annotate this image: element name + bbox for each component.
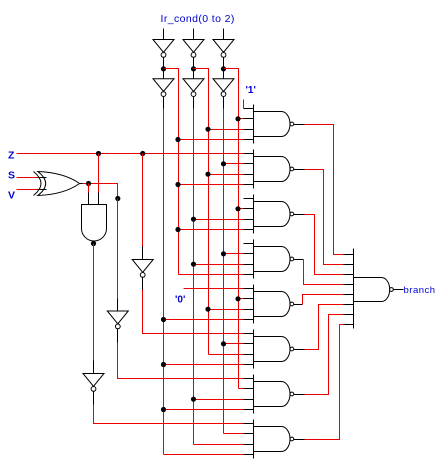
gate G3 input stub 1: [244, 198, 254, 200]
wire U4 output stub: [142, 278, 144, 290]
wire S: [17, 177, 38, 179]
wire gate G8 input 4: [164, 454, 244, 456]
gate G8 input stub 1: [244, 423, 254, 425]
wire gate G1 output to OR: [305, 125, 344, 255]
or-gate input bar: [353, 249, 355, 329]
junction Z to AND: [96, 151, 101, 156]
wire gate G2 input 2: [224, 163, 244, 165]
gate G6 input stub 3: [244, 354, 254, 356]
wire U2a output to U2b input: [193, 58, 195, 79]
gate G7 input stub 1: [244, 378, 254, 380]
inverter U5: [107, 311, 128, 324]
wire U2b output stub: [193, 97, 195, 109]
wire gate G4 input 4: [179, 274, 244, 276]
wire gate G6 input 4: [164, 364, 244, 366]
wire bypass elbow col1: [164, 69, 179, 71]
wire bypass elbow col3: [224, 69, 239, 71]
wire constant 1: [243, 100, 245, 109]
wire net nIrCond0 vertical: [163, 109, 165, 455]
gate G1 input stub 3: [244, 129, 254, 131]
wire constant 0: [184, 288, 244, 290]
wire net IrCond0 vertical: [178, 69, 180, 275]
gate G1 input stub 1: [244, 108, 254, 110]
svg-text:S: S: [8, 170, 15, 182]
gate G2 input stub 2: [244, 163, 254, 165]
wire and output stub: [93, 242, 95, 244]
inverter U1a: [153, 40, 174, 53]
wire net IrCond1 vertical: [208, 69, 210, 355]
wire and input stub right: [98, 193, 100, 205]
junction G4 input 3: [191, 262, 196, 267]
junction G1 input 2: [235, 116, 240, 121]
wire gate G5 output to OR: [303, 295, 344, 305]
gate G4 input stub 3: [244, 264, 254, 266]
wire U6 output stub: [93, 392, 95, 405]
wire U6 output to gate G8: [94, 405, 244, 424]
wire branch output: [394, 289, 404, 291]
and gate U8: [82, 205, 107, 241]
wire gate G8 output to OR: [305, 325, 344, 440]
wire net Z: [17, 153, 244, 155]
junction G2 input 4: [175, 182, 180, 187]
gate G2 input stub 1: [244, 153, 254, 155]
wire gate G3 output to OR: [305, 215, 344, 275]
wire U3a output to U3b input: [223, 58, 225, 79]
wire U5 output stub: [117, 329, 119, 343]
or-gate input stub 1: [344, 254, 354, 256]
svg-text:V: V: [8, 190, 15, 202]
junction G6 input 4: [161, 362, 166, 367]
wire U6 input stub: [93, 361, 95, 374]
wire net nIrCond1 vertical: [193, 109, 195, 445]
wire gate G1 input 3: [209, 129, 244, 131]
nand gate G3: [253, 195, 255, 234]
gate G5 input stub 4: [244, 319, 254, 321]
wire gate G6 output to OR: [305, 305, 344, 350]
junction G3 input 2: [235, 206, 240, 211]
wire S stub: [38, 177, 47, 179]
gate G8 input stub 2: [244, 433, 254, 435]
inverter U2a: [183, 40, 204, 53]
wire Z to inverter U4 input: [142, 154, 144, 247]
wire gate G3 input 2: [239, 208, 244, 210]
wire xor to and input: [88, 184, 90, 193]
wire gate G5 output stub: [294, 304, 303, 306]
junction Z to inverter U4: [140, 151, 145, 156]
wire gate G3 output stub: [294, 214, 305, 216]
wire gate G3 input 4: [179, 229, 244, 231]
junction node col3: [221, 66, 226, 71]
wire xor output stub: [80, 183, 83, 185]
gate G6 input stub 1: [244, 333, 254, 335]
wire gate G2 output stub: [294, 169, 305, 171]
wire gate G8 input 3: [194, 444, 244, 446]
gate G1 input stub 2: [244, 118, 254, 120]
wire bypass elbow col2: [194, 69, 209, 71]
wire xor output: [83, 184, 118, 199]
inverter U4: [132, 260, 153, 273]
inverter U3b: [213, 79, 234, 92]
wire V: [17, 189, 38, 191]
wire U4 input stub: [142, 247, 144, 260]
wire gate G4 output to OR: [304, 260, 344, 285]
junction G3 input 3: [191, 217, 196, 222]
nand gate G8: [253, 420, 255, 459]
nand gate G5: [253, 285, 255, 324]
wire U3b output stub: [223, 97, 225, 109]
wire xor to inverter U5 input: [117, 199, 119, 299]
wire gate G2 output to OR: [305, 170, 344, 265]
wire gate G6 input 2: [224, 343, 244, 345]
wire gate G5 input 2: [239, 298, 244, 300]
wire gate G8 output stub: [294, 439, 305, 441]
wire U4 output to gate G6: [143, 290, 244, 334]
gate G3 input stub 4: [244, 229, 254, 231]
junction G5 input 3: [205, 307, 210, 312]
or-gate input stub 7: [344, 314, 354, 316]
or-gate input stub 8: [344, 324, 354, 326]
wire Z to and input: [98, 154, 100, 193]
wire U5 output to gate G7: [118, 343, 244, 379]
wire gate G2 input 3: [209, 174, 244, 176]
junction xor tap node: [115, 196, 120, 201]
wire gate G5 input 4: [164, 319, 244, 321]
gate G1 input stub 4: [244, 139, 254, 141]
wire gate G3 input 3: [194, 219, 244, 221]
or-gate input stub 2: [344, 264, 354, 266]
or-gate input stub 3: [344, 274, 354, 276]
nand gate G2: [253, 150, 255, 189]
gate G7 input stub 3: [244, 399, 254, 401]
wire gate G4 output stub: [294, 259, 304, 261]
junction G3 input 4: [175, 227, 180, 232]
svg-text:'0': '0': [175, 295, 185, 306]
wire gate G5 input 3: [209, 309, 244, 311]
gate G4 input stub 1: [244, 243, 254, 245]
wire gate G2 input 4: [179, 184, 244, 186]
wire U1a output to U1b input: [163, 58, 165, 79]
inverter U1b: [153, 79, 174, 92]
wire gate G8 input 2: [224, 433, 244, 435]
gate G5 input stub 2: [244, 298, 254, 300]
wire U1b output stub: [163, 97, 165, 109]
wire gate G7 input 4: [164, 409, 244, 411]
inverter U2b: [183, 79, 204, 92]
junction G7 input 3: [191, 397, 196, 402]
gate G3 input stub 2: [244, 208, 254, 210]
nand gate G4: [253, 240, 255, 279]
gate G3 input stub 3: [244, 219, 254, 221]
wire and input stub left: [88, 193, 90, 205]
wire gate G7 input 3: [194, 399, 244, 401]
nand gate G6: [253, 330, 255, 369]
wire gate G4 input 2: [224, 253, 244, 255]
wire gate G1 output stub: [294, 124, 305, 126]
svg-text:Z: Z: [8, 150, 15, 162]
wire gate G1 input 4: [179, 139, 244, 141]
gate G2 input stub 4: [244, 184, 254, 186]
svg-text:'1': '1': [246, 85, 256, 96]
gate G8 input stub 3: [244, 444, 254, 446]
gate G6 input stub 2: [244, 343, 254, 345]
or-gate input stub 5: [344, 294, 354, 296]
svg-text:Ir_cond(0 to 2): Ir_cond(0 to 2): [161, 13, 235, 25]
gate G4 input stub 2: [244, 253, 254, 255]
or-gate input stub 4: [344, 284, 354, 286]
junction G6 input 2: [221, 341, 226, 346]
wire U5 input stub: [117, 299, 119, 312]
svg-text:branch: branch: [404, 285, 436, 296]
gate G5 input stub 3: [244, 309, 254, 311]
input stub Ir_cond(2): [223, 29, 225, 40]
junction G2 input 3: [205, 172, 210, 177]
wire gate G7 output to OR: [305, 315, 344, 395]
junction G1 input 3: [205, 127, 210, 132]
wire net nIrCond2 vertical: [223, 109, 225, 434]
gate G2 input stub 3: [244, 174, 254, 176]
junction G1 input 4: [175, 137, 180, 142]
inverter U6: [83, 374, 104, 387]
wire gate G1 input 2: [239, 118, 244, 120]
xor gate U7: [34, 172, 42, 196]
input stub Ir_cond(0): [163, 29, 165, 40]
junction G7 input 4: [161, 407, 166, 412]
gate G5 input stub 1: [244, 288, 254, 290]
gate G4 input stub 4: [244, 274, 254, 276]
junction and output: [91, 241, 96, 246]
wire gate G6 input 3: [209, 354, 244, 356]
junction G5 input 2: [235, 296, 240, 301]
output gate G9: [354, 278, 390, 302]
input stub Ir_cond(1): [193, 29, 195, 40]
wire gate G7 input 2: [239, 388, 244, 390]
junction node col1: [161, 66, 166, 71]
wire net IrCond2 vertical: [238, 69, 240, 389]
gate G8 input stub 4: [244, 454, 254, 456]
wire V stub: [38, 189, 47, 191]
nand gate G7: [253, 375, 255, 414]
junction G4 input 2: [221, 251, 226, 256]
junction xor output: [86, 181, 91, 186]
nand gate G1: [253, 105, 255, 144]
junction G5 input 4: [161, 317, 166, 322]
junction node col2: [191, 66, 196, 71]
wire gate G4 input 3: [194, 264, 244, 266]
inverter U3a: [213, 40, 234, 53]
wire and to inverter U6 input: [93, 244, 95, 361]
or-gate input stub 6: [344, 304, 354, 306]
junction G2 input 2: [221, 161, 226, 166]
wire gate G6 output stub: [294, 349, 305, 351]
gate G7 input stub 2: [244, 388, 254, 390]
gate G7 input stub 4: [244, 409, 254, 411]
gate G6 input stub 4: [244, 364, 254, 366]
wire gate G7 output stub: [294, 394, 305, 396]
